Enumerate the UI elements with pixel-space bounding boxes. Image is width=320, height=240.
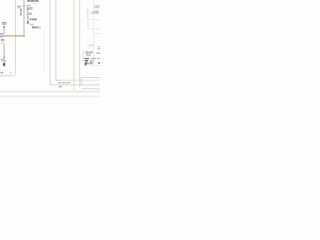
wire net (olive) J1 to riser [3, 35, 14, 37]
wire faint mid vertical [43, 30, 45, 72]
U2 pin row 4 [85, 64, 88, 65]
capacitor C3 value text [29, 13, 32, 14]
wire right inner vertical [93, 0, 95, 66]
junction + ground symbol left [3, 63, 5, 65]
U2 upper text row [90, 45, 94, 46]
power symbol VCC (left) text [2, 22, 7, 24]
title block top edge [81, 77, 100, 79]
title block left edge [80, 78, 82, 86]
connector U2 left edge [82, 50, 84, 61]
capacitor C1 label text (left chain) [17, 6, 20, 7]
net label text mid-left [1, 59, 4, 60]
hierarchical sheet S1 bottom edge [0, 75, 16, 77]
capacitor C2 value text [29, 7, 33, 8]
title block bottom line [82, 88, 100, 90]
U2 pin row 1 [84, 58, 89, 59]
hierarchical sheet S3 bottom edge [56, 79, 61, 81]
wire right horizontal y29 [88, 28, 100, 30]
faint line y9 right [94, 8, 100, 10]
J1 pin label text below [1, 39, 5, 41]
hierarchical sheet S2 bottom edge [50, 84, 100, 86]
junction dot [27, 21, 29, 22]
wire stub tick [3, 57, 5, 58]
hierarchical sheet S5 left edge [79, 0, 81, 88]
hierarchical sheet S3 left edge [55, 0, 57, 80]
faint line under top-right block [88, 19, 100, 21]
wire right horizontal y33.5 [94, 33, 100, 35]
capacitor C3 symbol [27, 12, 29, 15]
frame inner border band [0, 91, 100, 93]
wire cap rail horizontal [21, 5, 28, 7]
U2 pin row 2 [85, 60, 88, 61]
resistor R1 small element [27, 17, 28, 19]
hierarchical sheet S2 left edge [49, 0, 51, 85]
wire junction tick on rail [23, 5, 25, 8]
wire J1 pin2 down to ground [3, 44, 5, 64]
wire VCC down to J1 [3, 27, 5, 33]
net label top text row [27, 0, 30, 2]
hierarchical sheet S4 left edge [73, 0, 75, 90]
ground symbol top cluster [27, 22, 30, 25]
net label text rows below cluster [30, 24, 34, 26]
capacitor C2 ref text (right chain top) [27, 5, 30, 6]
text rows top-right [93, 11, 96, 12]
text PWR_FLAG small [0, 72, 3, 74]
hierarchical sheet S1 right edge [14, 0, 16, 76]
wire corner junction [24, 35, 25, 36]
wire riser up to cap rail [23, 0, 25, 35]
text smudge right edge mid [98, 46, 100, 47]
sheet background [0, 0, 100, 100]
U2 title text rows [85, 52, 89, 53]
U2 bottom faint line [90, 64, 100, 66]
wire C3 to ground [27, 18, 29, 21]
capacitor C2 symbol [27, 6, 29, 8]
U2 upper pin stubs [87, 44, 89, 50]
capacitor C1 symbol [20, 8, 22, 9]
sheet pin text rows top-right [94, 5, 99, 6]
text row right of R1 [29, 18, 31, 20]
frame outer border band [0, 96, 100, 98]
U2 pin row 3 (blue) [85, 62, 87, 63]
sheet S2 file text [59, 86, 62, 87]
hierarchical label arrow top-right [92, 12, 93, 13]
U2 header bar [86, 55, 90, 56]
connector edge with pin ticks [87, 8, 89, 29]
sheet S3 file text [58, 82, 61, 83]
connector J1 body (violet) [0, 33, 4, 35]
capacitor C1 value marks [20, 13, 22, 15]
power symbol VCC arrow [3, 26, 5, 28]
